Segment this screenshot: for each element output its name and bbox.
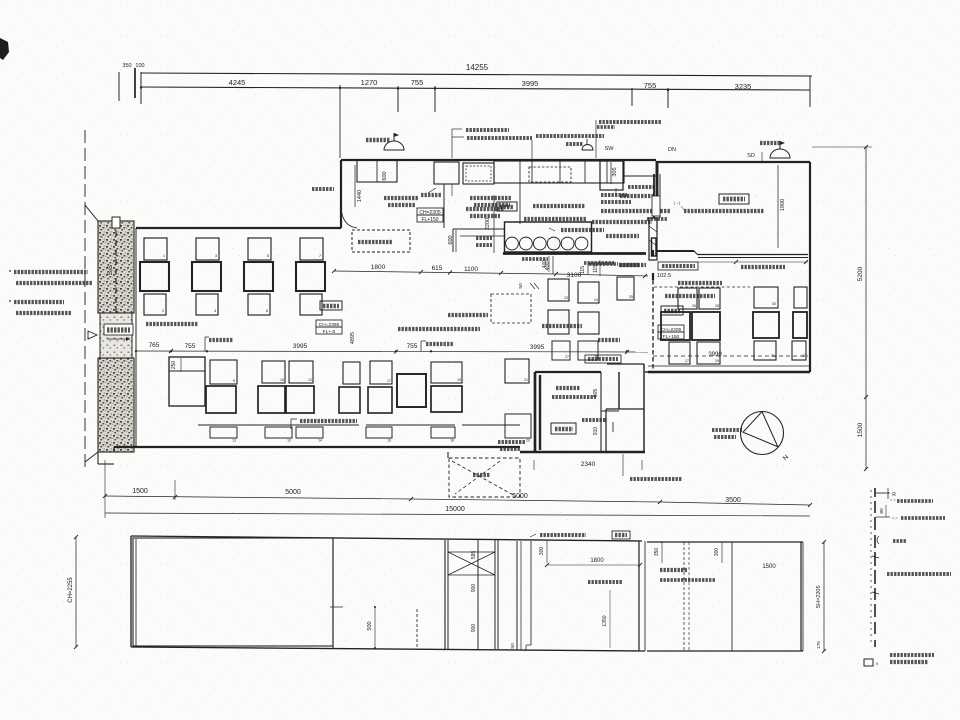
table B upper small 1: [678, 288, 697, 309]
table C1 mid thick: [753, 312, 779, 338]
table lower 17: [370, 361, 392, 384]
svg-text:175: 175: [816, 641, 821, 649]
svg-text:FL+150: FL+150: [421, 217, 438, 223]
table upper thick col2: [192, 262, 221, 291]
closet top line: [607, 363, 644, 365]
svg-text:9: 9: [233, 379, 235, 383]
kitchen vertical partition x520: [519, 183, 521, 224]
table lower thick big: [397, 374, 426, 407]
elevation left edge: [130, 536, 132, 647]
step table 26: [548, 310, 569, 334]
svg-text:900: 900: [471, 584, 477, 593]
table lower: [343, 362, 360, 384]
label CH=2365 box: [316, 320, 342, 327]
label bench seat storage: [300, 419, 357, 423]
svg-text:3500: 3500: [725, 497, 741, 504]
svg-text:400: 400: [542, 260, 548, 269]
wall changing-room bottom seg1: [656, 250, 694, 252]
svg-text:765: 765: [149, 342, 160, 349]
svg-text:1900: 1900: [780, 199, 786, 211]
bench table 18: [431, 427, 455, 438]
label CH=2206 box: [658, 325, 684, 332]
table lower thick 4: [339, 387, 360, 413]
wind lobby dashed diagonal 2: [455, 461, 500, 494]
wall toilet top: [535, 371, 601, 373]
elevation divider x333: [332, 539, 334, 648]
right section dashed line y287: [654, 286, 750, 288]
svg-text:3995: 3995: [530, 344, 545, 351]
label CH=2305 box: [417, 208, 443, 215]
label display rail bar: [892, 517, 899, 519]
svg-text:25: 25: [629, 295, 633, 299]
table lower thick 1: [206, 386, 236, 413]
detail small tick a: [872, 556, 879, 558]
label kisetsu VC left: [366, 138, 390, 142]
wall toilet right room step: [618, 372, 620, 409]
dim 80 rotated detail: [885, 505, 887, 517]
wind lobby dashed diagonal 1: [452, 461, 515, 496]
svg-text:1440: 1440: [357, 190, 363, 202]
label yuko kaiko 781 top: [584, 354, 586, 356]
wall right-section bottom: [648, 371, 810, 373]
bench seat line: [198, 424, 359, 426]
slope arrow: [107, 338, 130, 340]
movable slope dashed rect: [491, 294, 531, 323]
svg-text:615: 615: [432, 265, 443, 272]
svg-text:23: 23: [564, 296, 568, 300]
equipment dashed inner: [529, 167, 571, 182]
table B4: [697, 342, 720, 364]
note awning line1: [14, 270, 88, 274]
label hall screen elev: [660, 578, 716, 582]
table lower small col2: [196, 294, 218, 315]
svg-text:755: 755: [411, 78, 424, 87]
equipment dashed inner B: [466, 166, 491, 181]
wall dining bottom left vertical: [113, 447, 115, 452]
wall left of changing room: [653, 174, 655, 218]
svg-text:755: 755: [407, 343, 418, 350]
table lower 10: [262, 361, 285, 383]
label upper tarekabe H350: [678, 281, 722, 285]
svg-text:FL+-0: FL+-0: [323, 329, 336, 335]
wall dining bottom: [114, 446, 520, 448]
elevation bottom line: [131, 647, 645, 651]
wall right outer: [809, 162, 811, 372]
kitchen storage divider: [376, 160, 378, 182]
equipment band divider 2: [531, 161, 533, 183]
svg-text:3995: 3995: [522, 79, 539, 88]
wall mid vertical lower solid: [652, 273, 654, 280]
leader bracket shelf: [451, 129, 453, 158]
label movable slope: [448, 313, 488, 317]
wall right room east: [645, 371, 648, 373]
table lower 12: [289, 361, 313, 383]
kitchen step line right: [623, 175, 657, 177]
label joubu kanki lower: [498, 440, 526, 444]
hatched wall lower segment: [98, 358, 134, 452]
elevation mid verticals: [516, 541, 518, 650]
svg-text:3990: 3990: [708, 352, 722, 358]
counter front thick: [503, 252, 646, 255]
svg-text:10: 10: [280, 378, 284, 382]
equipment band divider 3: [559, 161, 561, 183]
table B3: [669, 342, 690, 364]
label smoke detector: [552, 395, 596, 399]
label tana 2dan: [426, 342, 453, 346]
bench table 20: [505, 414, 531, 438]
svg-text:9: 9: [876, 662, 878, 666]
VC dome symbol left: [384, 141, 404, 150]
svg-text:2340: 2340: [581, 461, 596, 468]
wall corridor right: [600, 372, 602, 452]
svg-text:5000: 5000: [512, 493, 528, 500]
wall kitchen left: [340, 160, 342, 228]
label counter small: [522, 257, 548, 261]
label takujou 1H: [628, 185, 658, 189]
svg-text:5000: 5000: [285, 489, 301, 496]
label gas stove: [467, 136, 532, 140]
svg-text:24: 24: [594, 298, 598, 302]
svg-text:115: 115: [593, 265, 599, 273]
elevation right inner dashed: [683, 542, 685, 651]
svg-text:31: 31: [771, 354, 775, 358]
svg-text:250: 250: [171, 361, 177, 370]
elevation dashed vertical x417: [416, 609, 418, 650]
note awning line2: [16, 281, 92, 285]
table lower 21: [505, 359, 529, 383]
svg-text:2200: 2200: [485, 218, 491, 230]
svg-text:(→): (→): [674, 200, 681, 205]
leader eq2: [531, 140, 533, 160]
svg-text:4895: 4895: [350, 332, 356, 344]
table B2 thick: [692, 312, 720, 340]
svg-text:1350: 1350: [602, 615, 608, 626]
burner circle 4: [547, 237, 560, 250]
label range hood line2: [597, 125, 615, 129]
VC dome symbol right: [770, 149, 790, 158]
wall dining inner left face: [135, 228, 137, 447]
leader lines kitchen labels: [451, 184, 453, 196]
note bullet marks: [9, 270, 11, 272]
table upper small col1: [144, 238, 167, 260]
label floor zaisu: [598, 338, 620, 342]
dim line y350: [136, 351, 648, 352]
bench table 13: [210, 427, 237, 438]
burner circle 2: [520, 237, 533, 250]
dim SH=2205 vertical: [823, 542, 825, 651]
step table 25: [617, 277, 634, 300]
label hand washer leader: [428, 188, 436, 193]
label toilet boxed: [551, 423, 576, 434]
step table 27: [578, 312, 599, 334]
svg-text:350: 350: [122, 63, 131, 69]
toilet inner wall thick: [539, 375, 541, 450]
svg-text:12: 12: [308, 378, 312, 382]
svg-text:27: 27: [685, 359, 689, 363]
svg-text:910: 910: [593, 427, 599, 436]
bench table 13: [265, 427, 292, 438]
dim 600 rotated counter: [455, 230, 457, 252]
label sensor line changing side: [684, 209, 764, 213]
svg-text:50: 50: [510, 643, 516, 649]
svg-text:3235: 3235: [735, 82, 752, 91]
dim line y500 right: [411, 499, 660, 502]
detail bottom box: [864, 659, 873, 666]
hatch band small step bottom: [97, 452, 99, 464]
elevation left inner edge: [135, 539, 137, 646]
elevation top line: [131, 536, 642, 541]
label slope boxed: [104, 324, 133, 335]
svg-text:18: 18: [450, 439, 454, 443]
svg-text:R: R: [892, 492, 896, 498]
table upper thick col1: [140, 262, 169, 291]
table C1 low: [754, 341, 776, 360]
dim ticks y496: [103, 494, 107, 498]
table lower thick 2: [258, 386, 285, 413]
label counter table elev: [588, 580, 622, 584]
svg-text:29: 29: [715, 359, 719, 363]
wall changing-room top: [656, 161, 810, 163]
bench table 14: [296, 427, 323, 438]
svg-text:30: 30: [772, 302, 776, 306]
svg-text:1800: 1800: [371, 264, 386, 271]
kitchen storage room top-left: [357, 160, 397, 182]
label worktable 1200 two lines: [384, 196, 418, 200]
svg-text:26: 26: [692, 304, 696, 308]
step table 23: [548, 279, 569, 301]
bench table 16: [366, 427, 392, 438]
svg-text:500: 500: [367, 621, 373, 630]
dim 905 rotated: [600, 374, 602, 408]
kitchen equipment right block: [600, 161, 623, 190]
hatch band top notch: [112, 217, 120, 228]
wall changing-room bottom step: [694, 251, 698, 255]
hatch band center dashed line: [115, 221, 117, 452]
label kitchen rf small: [312, 187, 334, 191]
elevation divider x445: [444, 540, 446, 649]
dim 400 rotated left of 3100: [548, 256, 550, 272]
svg-text:SW: SW: [605, 146, 615, 152]
label shop B boxed: [661, 306, 683, 315]
wall toilet bottom: [520, 451, 645, 453]
svg-text:28: 28: [594, 355, 598, 359]
closet bottom / room top: [606, 408, 644, 410]
label soup counter: [524, 217, 586, 221]
svg-text:80: 80: [879, 508, 885, 514]
label kitchen46 small: [647, 217, 667, 221]
svg-text:350: 350: [654, 548, 660, 557]
table C1: [754, 287, 778, 308]
table upper small col4: [300, 238, 323, 260]
label upper-opening left: [620, 263, 646, 267]
label 2-sou sink: [466, 207, 504, 211]
svg-text:27: 27: [565, 355, 569, 359]
svg-text:1500: 1500: [762, 564, 776, 570]
dim line y496: [105, 496, 411, 499]
label sensor line kitchen side: [601, 209, 671, 213]
dim line 15000: [105, 513, 810, 516]
label worktable right: [754, 194, 758, 198]
svg-text:5200: 5200: [857, 266, 864, 281]
elevation vertical x531 with step: [530, 541, 532, 645]
label joubu kankito right-section: [712, 428, 742, 432]
table lower thick 3: [286, 386, 314, 413]
label picture rail: [890, 499, 896, 501]
svg-text:28: 28: [715, 304, 719, 308]
compass circle: [741, 412, 784, 455]
table lower small col3: [248, 294, 270, 315]
wind lobby dashed box: [449, 458, 520, 497]
closet right edge: [643, 364, 645, 452]
bench bracket: [290, 419, 292, 429]
label sagebuchi counter: [476, 236, 492, 240]
table upper thick col4: [296, 262, 325, 291]
svg-text:1100: 1100: [464, 266, 478, 273]
label fujo: [473, 473, 490, 477]
svg-text:905: 905: [593, 389, 599, 398]
leader range hood: [595, 120, 597, 158]
label counter small right: [584, 261, 614, 265]
large open table rect: [169, 357, 205, 406]
scan edge blob left: [0, 38, 9, 60]
svg-text:14255: 14255: [466, 63, 489, 72]
equipment band divider 4: [584, 161, 586, 183]
table C2 low: [792, 341, 806, 360]
table lower 19: [431, 362, 462, 383]
label roll screen: [665, 294, 715, 298]
label kitchen boxed: [497, 202, 517, 211]
dim 300 rotated elev: [546, 541, 548, 563]
label lower drain: [620, 194, 654, 198]
svg-text:SH=2205: SH=2205: [816, 585, 822, 608]
label yuko-kaiko boxed: [658, 262, 698, 270]
note signboard line1: [14, 300, 64, 304]
svg-text:SD: SD: [747, 153, 755, 159]
svg-text:305: 305: [612, 167, 618, 176]
svg-text:14: 14: [318, 439, 322, 443]
table B1 thick: [661, 312, 690, 340]
label han-tana 1405: [561, 228, 604, 232]
wall mid vertical upper: [652, 250, 654, 256]
kitchen lower counter lines: [453, 228, 504, 230]
elevation right part right edge: [800, 542, 802, 651]
label worktable B 1010: [533, 204, 585, 208]
label register counter: [358, 240, 392, 244]
label refrigerator: [606, 234, 639, 238]
svg-text:1500: 1500: [132, 488, 148, 495]
triangle marker entrance: [88, 331, 97, 339]
svg-text:13: 13: [232, 439, 236, 443]
kitchen step diagonal: [341, 207, 357, 228]
burner circle 1: [506, 237, 519, 250]
elevation right inner solid: [731, 542, 733, 651]
dim vertical left bottom: [104, 460, 106, 518]
svg-text:50: 50: [518, 283, 524, 289]
label shelf W1900: [466, 128, 509, 132]
svg-text:3100: 3100: [567, 272, 582, 279]
dim right ticks: [864, 145, 868, 149]
svg-text:1270: 1270: [361, 78, 378, 87]
label joubu light fixture: [146, 322, 198, 326]
right section thin line y366: [648, 365, 810, 367]
large open rect inner line: [169, 370, 205, 372]
label sagyoudai left2: [601, 193, 627, 197]
dimension top total 14255: [141, 73, 812, 76]
table lower small col1: [144, 294, 166, 315]
elevation divider notch: [330, 606, 343, 608]
burner circle 5: [561, 237, 574, 250]
dim ticks right section: [734, 260, 738, 264]
property line left: [84, 130, 86, 470]
svg-text:17: 17: [387, 379, 391, 383]
dim 305 rotated: [610, 162, 612, 184]
label detail caption line1: [890, 653, 934, 657]
svg-text:595: 595: [471, 551, 477, 560]
dim 115 rotated: [587, 263, 589, 274]
svg-text:21: 21: [524, 378, 528, 382]
elevation X brace: [448, 552, 495, 575]
label tearai: [556, 386, 580, 390]
register counter dashed: [352, 230, 410, 252]
table upper thick col3: [244, 262, 273, 291]
dim 2200 rotated: [493, 195, 495, 253]
corner diagonal bottom-left: [85, 452, 98, 462]
label kaiko boxed elev: [612, 531, 630, 539]
dim ticks y500: [658, 500, 662, 504]
label josetsu kanchiki: [592, 220, 652, 224]
dim 500 rotated elevation: [374, 607, 376, 648]
kitchen equipment block B: [463, 163, 494, 184]
label yuko kaiko 2 boxed: [585, 355, 621, 363]
detail small tick b: [872, 592, 879, 594]
svg-text:755: 755: [185, 343, 196, 350]
svg-text:755: 755: [644, 81, 657, 90]
wall changing-room bottom seg2 upper: [698, 254, 808, 256]
right section dashed line y356: [653, 355, 808, 357]
table B upper small 2: [699, 288, 720, 309]
corner diagonal top-left: [85, 205, 98, 221]
svg-text:DN: DN: [668, 147, 676, 153]
label L-handrail: [630, 477, 682, 481]
detail vertical inner dashes: [870, 490, 872, 646]
label range hood line1: [599, 120, 661, 124]
hatched wall upper segment: [98, 221, 134, 313]
dim line right section top: [694, 261, 808, 263]
wall dining top: [136, 227, 341, 229]
label electric water heater: [536, 134, 604, 138]
table C2 mid thick: [793, 312, 807, 338]
dim ticks y350: [135, 350, 137, 352]
label kensaki benki: [582, 418, 606, 422]
dim right vertical line: [865, 147, 867, 469]
label upper opening small: [619, 263, 640, 267]
label nonslip: [542, 324, 582, 328]
burner circle 6: [575, 237, 588, 250]
elevation big panel: [133, 538, 333, 646]
equipment band divider 5: [606, 161, 608, 183]
label hook: [877, 536, 879, 544]
svg-text:100: 100: [135, 63, 144, 69]
room door tick: [612, 422, 614, 432]
label counter table small right: [589, 262, 618, 266]
dim 1440 rotated: [354, 165, 356, 207]
label display rail bar elev: [540, 533, 586, 537]
dim ticks mid: [332, 269, 336, 273]
svg-text:S.S: S.S: [107, 264, 114, 275]
label shop A boxed: [320, 301, 342, 310]
hatched wall slope segment: [100, 313, 132, 358]
detail bracket top: [876, 492, 890, 494]
